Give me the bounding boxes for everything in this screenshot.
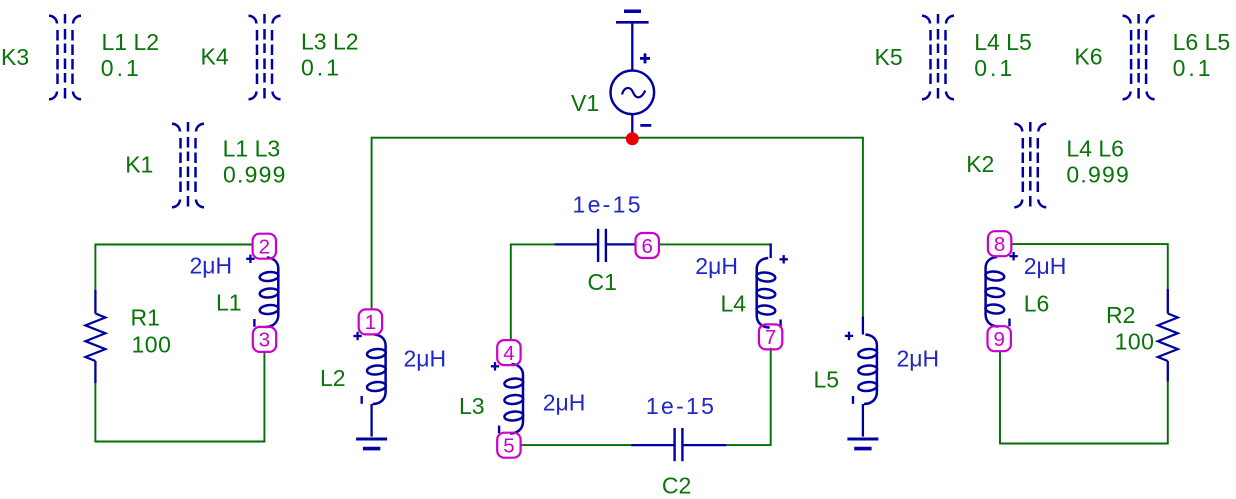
svg-text:R1: R1	[131, 305, 160, 331]
svg-text:5: 5	[503, 435, 514, 458]
svg-text:0.1: 0.1	[1173, 55, 1214, 81]
svg-text:L6: L6	[1024, 291, 1050, 317]
svg-text:V1: V1	[571, 90, 599, 116]
svg-text:L4 L6: L4 L6	[1066, 136, 1124, 162]
svg-text:K1: K1	[125, 151, 153, 177]
svg-text:1e-15: 1e-15	[646, 393, 716, 419]
svg-text:L4 L5: L4 L5	[974, 29, 1032, 55]
svg-text:9: 9	[993, 328, 1004, 351]
svg-text:L6 L5: L6 L5	[1173, 29, 1231, 55]
svg-text:L3: L3	[459, 393, 485, 419]
svg-text:K2: K2	[966, 151, 994, 177]
svg-text:L1: L1	[216, 289, 242, 315]
svg-text:K5: K5	[875, 44, 903, 70]
svg-text:0.1: 0.1	[974, 55, 1015, 81]
svg-text:L3 L2: L3 L2	[301, 28, 359, 54]
svg-text:C1: C1	[588, 269, 617, 295]
svg-text:2: 2	[259, 236, 270, 259]
svg-text:L1 L3: L1 L3	[223, 136, 281, 162]
svg-text:2μH: 2μH	[1024, 253, 1067, 279]
svg-text:L5: L5	[814, 366, 840, 392]
svg-text:K6: K6	[1074, 44, 1102, 70]
svg-text:L2: L2	[320, 365, 346, 391]
svg-text:100: 100	[132, 332, 172, 358]
svg-text:8: 8	[994, 233, 1005, 256]
svg-text:2μH: 2μH	[695, 253, 738, 279]
svg-text:2μH: 2μH	[543, 390, 586, 416]
svg-text:6: 6	[641, 235, 652, 258]
svg-text:0.1: 0.1	[101, 55, 142, 81]
svg-text:1: 1	[365, 311, 376, 334]
svg-text:C2: C2	[662, 472, 691, 498]
svg-text:3: 3	[259, 329, 270, 352]
svg-text:1e-15: 1e-15	[573, 192, 643, 218]
svg-text:K3: K3	[1, 44, 29, 70]
svg-text:2μH: 2μH	[190, 253, 233, 279]
svg-text:0.1: 0.1	[301, 55, 342, 81]
svg-text:7: 7	[765, 326, 776, 349]
svg-text:2μH: 2μH	[897, 346, 940, 372]
svg-text:4: 4	[503, 342, 514, 365]
svg-text:2μH: 2μH	[404, 345, 447, 371]
svg-text:L4: L4	[721, 291, 747, 317]
svg-text:R2: R2	[1106, 302, 1135, 328]
svg-text:100: 100	[1115, 328, 1155, 354]
svg-text:0.999: 0.999	[1066, 161, 1130, 187]
svg-text:K4: K4	[201, 43, 229, 69]
svg-text:L1 L2: L1 L2	[102, 29, 160, 55]
svg-text:0.999: 0.999	[223, 161, 287, 187]
